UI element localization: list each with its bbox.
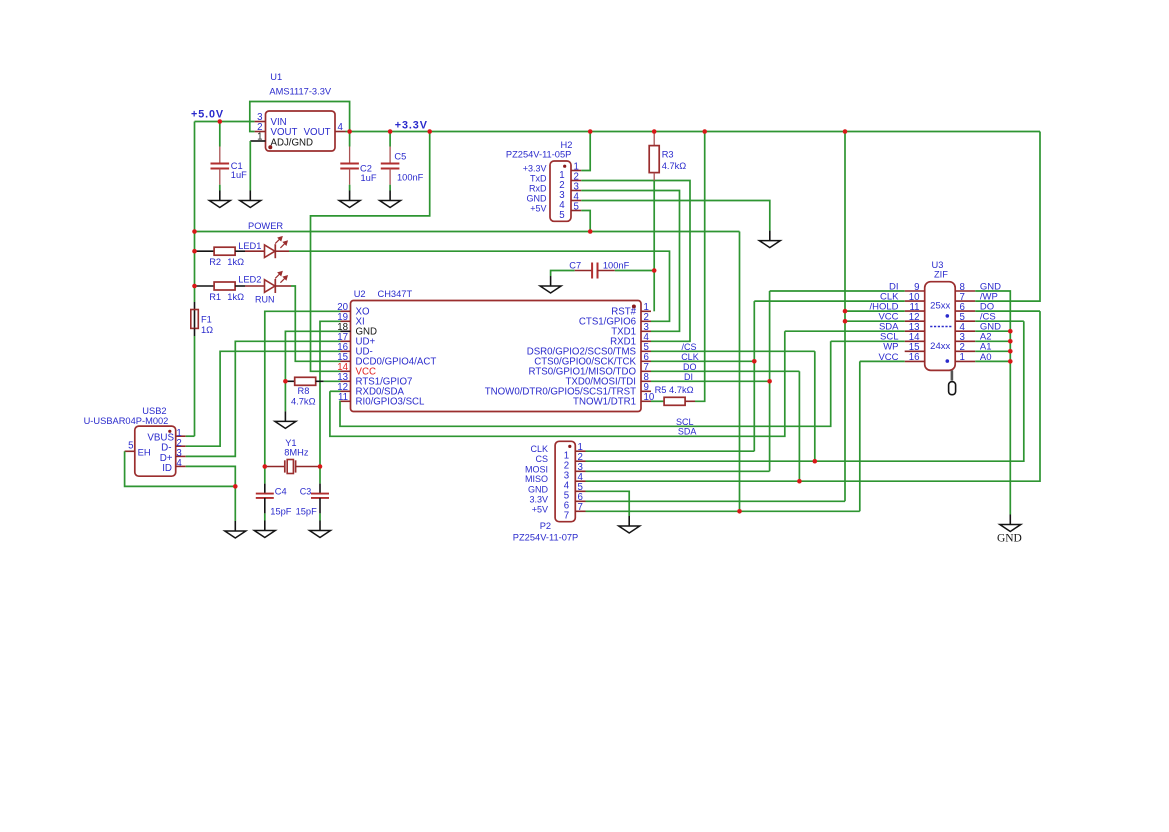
- H2 pin 5 +5V stub: [571, 210, 581, 212]
- wire R8 node to ground: [284, 381, 286, 411]
- U3 pin 12 VCC stub: [905, 320, 925, 322]
- wire +5V VCC16 column: [859, 361, 861, 511]
- IC U3 ZIF socket: [925, 260, 956, 370]
- P2 pin 4 MISO stub: [575, 480, 585, 482]
- svg-text:+5.0V: +5.0V: [191, 109, 224, 121]
- svg-text:SDA: SDA: [678, 426, 697, 436]
- wire C1 bottom lead: [219, 185, 221, 191]
- wire C3 to ground: [319, 513, 321, 520]
- wire +3.3V rail: [346, 131, 1041, 133]
- svg-text:TxD: TxD: [530, 174, 547, 184]
- U3 pin 4 GND stub: [955, 330, 975, 332]
- svg-text:Y1: Y1: [285, 438, 296, 448]
- svg-text:CH347T: CH347T: [378, 289, 413, 299]
- wire U2 pin8 MOSI to DI net: [651, 380, 770, 382]
- wire U2 XO to Y1: [265, 311, 341, 466]
- R1 pin right (black): [235, 285, 245, 287]
- U2 pin 19 XI stub: [341, 320, 351, 322]
- U3 pin 16 VCC stub: [905, 360, 925, 362]
- junction LED2/+5V: [192, 284, 197, 289]
- wire +5V left vertical: [194, 122, 196, 303]
- junction rail/R5: [702, 129, 707, 134]
- svg-text:CS: CS: [535, 454, 548, 464]
- P2 pin 7 +5V stub: [575, 510, 585, 512]
- ground C4: [254, 521, 275, 538]
- wire USB D- to U2 UD-: [186, 351, 341, 446]
- resistor R5 4.7k: [655, 385, 694, 405]
- U1 pin 3 VIN stub: [255, 121, 266, 123]
- wire POWER +5V column: [739, 232, 741, 512]
- svg-text:DI: DI: [684, 372, 693, 382]
- wire U2 pin5 TMS to /CS column: [651, 350, 815, 352]
- U2 pin 7 RTS0/GPIO1/MISO/TDO stub: [641, 370, 651, 372]
- U1 pin 2 VOUT stub: [255, 131, 266, 133]
- svg-text:5: 5: [574, 201, 579, 212]
- wire /CS column: [814, 351, 816, 461]
- wire U3 CLK wire: [754, 300, 904, 302]
- wire +3.3V column to P2: [844, 132, 846, 502]
- ground C3: [310, 521, 331, 538]
- svg-text:C7: C7: [569, 260, 581, 270]
- capacitor C3 15pF: [296, 487, 329, 517]
- ground C7: [540, 276, 561, 293]
- H2 pin 4 GND stub: [571, 200, 581, 202]
- USB2 pin 1 stub: [176, 435, 186, 437]
- wire C5 top lead: [389, 132, 391, 147]
- F1 pin top (black): [194, 302, 196, 310]
- wire U2 pin10 to R5: [651, 400, 664, 402]
- wire C7 left to ground: [551, 271, 575, 277]
- wire H2 pin5 to POWER rail: [581, 211, 590, 232]
- junction rail/H2: [588, 129, 593, 134]
- svg-text:7: 7: [564, 511, 569, 522]
- wire U1 VOUT loop to pin2: [250, 102, 350, 132]
- svg-text:RUN: RUN: [255, 295, 275, 305]
- wire H2 pin3 RxD to U2 TXD1: [581, 191, 679, 332]
- U2 pin 11 RI0/GPIO3/SCL stub: [341, 400, 351, 402]
- U3 pin 2 A1 stub: [955, 350, 975, 352]
- LED LED2: [265, 271, 288, 293]
- wire P2 +5V wire: [586, 510, 860, 512]
- wire USB D+ to U2 UD+: [186, 341, 341, 456]
- svg-text:16: 16: [909, 352, 920, 363]
- wire U3 SDA wire: [785, 330, 905, 332]
- U3 pin 1 A0 stub: [955, 360, 975, 362]
- svg-text:H2: H2: [561, 140, 573, 150]
- U3 pin 6 DO stub: [955, 310, 975, 312]
- C1 pin bottom: [219, 169, 221, 185]
- svg-text:4: 4: [338, 122, 344, 133]
- svg-text:EH: EH: [138, 446, 151, 457]
- resistor R8 4.7k: [291, 377, 316, 406]
- wire RST node down to U2 pin1: [653, 271, 655, 312]
- wire U2 pin6 SCK to CLK net: [651, 360, 754, 362]
- wire H2 pin2 TxD to U2 RXD1: [581, 181, 690, 342]
- C4 pin top (black): [264, 467, 266, 484]
- wire U2 pin7 MISO to DO column: [651, 370, 799, 372]
- svg-text:LED1: LED1: [238, 241, 261, 251]
- P2 pin 2 CS stub: [575, 460, 585, 462]
- wire P2 MISO wire: [586, 311, 1041, 481]
- connector H2 PZ254V-11-05P: [506, 140, 572, 221]
- wire R8 to U2 pin13: [324, 380, 341, 382]
- U1 pin 4 VOUT stub: [335, 131, 346, 133]
- svg-text:3.3V: 3.3V: [529, 494, 548, 504]
- svg-text:RI0/GPIO3/SCL: RI0/GPIO3/SCL: [356, 397, 426, 408]
- svg-text:7: 7: [578, 502, 583, 513]
- svg-text:4.7kΩ: 4.7kΩ: [662, 161, 687, 171]
- svg-text:100nF: 100nF: [397, 173, 424, 183]
- U3 pin 13 SDA stub: [905, 330, 925, 332]
- svg-text:4.7kΩ: 4.7kΩ: [291, 397, 316, 407]
- C3 pin top (black): [319, 467, 321, 484]
- H2 pin 3 RxD stub: [571, 190, 581, 192]
- F1 pin bottom (black): [194, 328, 196, 336]
- svg-text:PZ254V-11-05P: PZ254V-11-05P: [506, 150, 571, 160]
- svg-text:+3.3V: +3.3V: [395, 120, 428, 132]
- U2 pin 4 RXD1 stub: [641, 340, 651, 342]
- svg-text:RxD: RxD: [529, 184, 547, 194]
- svg-text:R8: R8: [298, 386, 310, 396]
- ground C1: [209, 191, 230, 208]
- junction Y1/XO: [263, 464, 268, 469]
- ground H2 pin4: [759, 231, 780, 248]
- wire U3 DI wire: [770, 290, 905, 292]
- svg-text:+3.3V: +3.3V: [523, 164, 547, 174]
- U3 25xx orientation dot: [946, 314, 950, 318]
- U3 pin 14 SCL stub: [905, 340, 925, 342]
- junction R8/GND: [283, 379, 288, 384]
- U3 ZIF lever: [949, 370, 956, 394]
- svg-text:LED2: LED2: [238, 275, 261, 285]
- svg-text:1uF: 1uF: [231, 170, 247, 180]
- svg-text:1: 1: [257, 132, 262, 143]
- junction U3 A2: [1008, 339, 1013, 344]
- svg-text:C2: C2: [360, 164, 372, 174]
- svg-text:ZIF: ZIF: [934, 270, 948, 280]
- P2 pin 5 GND stub: [575, 490, 585, 492]
- IC U2 CH347T: [351, 289, 642, 412]
- ground USB ID/EH: [225, 521, 246, 538]
- USB2 pin 3 stub: [176, 455, 186, 457]
- fuse F1 1 ohm: [191, 310, 213, 336]
- junction C1/+5V: [218, 119, 223, 124]
- R1 pin left (black): [197, 285, 215, 287]
- wire U3 DO wire: [975, 310, 1040, 312]
- LED2 cathode lead: [275, 285, 291, 287]
- C3 pin bottom (black): [319, 498, 321, 514]
- svg-text:5: 5: [128, 440, 133, 451]
- C5 pin bottom: [389, 169, 391, 185]
- wire C2 top lead: [349, 132, 351, 147]
- junction /CS/P2: [813, 459, 818, 464]
- wire U3 SCL wire: [831, 340, 905, 342]
- U3 pin 9 DI stub: [905, 290, 925, 292]
- svg-text:1kΩ: 1kΩ: [227, 292, 244, 302]
- U2 pin 12 RXD0/SDA stub: [341, 390, 351, 392]
- wire U3 GND bus: [975, 291, 1010, 515]
- svg-text:5: 5: [559, 210, 564, 221]
- U3 pin 3 A2 stub: [955, 340, 975, 342]
- svg-text:C4: C4: [275, 487, 287, 497]
- LED LED1: [265, 237, 288, 259]
- junction USB ID/EH: [233, 484, 238, 489]
- svg-text:+5V: +5V: [532, 504, 548, 514]
- USB2 pin 4 stub: [176, 465, 186, 467]
- U2 pin 8 TXD0/MOSI/TDI stub: [641, 380, 651, 382]
- svg-text:1Ω: 1Ω: [201, 325, 213, 335]
- svg-text:MISO: MISO: [525, 474, 548, 484]
- U3 pin 10 CLK stub: [905, 300, 925, 302]
- svg-text:/CS: /CS: [682, 342, 697, 352]
- C7 pin left: [575, 270, 592, 272]
- wire U2 XI to Y1: [320, 321, 341, 466]
- wire P2 CLK wire: [586, 450, 755, 452]
- ground C2: [339, 191, 360, 208]
- svg-text:ADJ/GND: ADJ/GND: [271, 137, 314, 148]
- svg-text:USB2: USB2: [142, 406, 166, 416]
- svg-text:CLK: CLK: [530, 444, 548, 454]
- resistor R1 1kΩ: [214, 282, 235, 290]
- svg-text:U-USBAR04P-M002: U-USBAR04P-M002: [84, 416, 169, 426]
- svg-text:8MHz: 8MHz: [284, 448, 309, 458]
- svg-text:R5 4.7kΩ: R5 4.7kΩ: [655, 385, 694, 395]
- capacitor C7 100nF: [569, 260, 629, 278]
- svg-text:F1: F1: [201, 315, 212, 325]
- junction RST/C7: [652, 268, 657, 273]
- U2 pin 6 CTS0/GPIO0/SCK/TCK stub: [641, 360, 651, 362]
- junction rail/C2: [347, 129, 352, 134]
- junction rail/U3: [843, 129, 848, 134]
- svg-text:100nF: 100nF: [603, 260, 630, 270]
- U2 pin 18 GND stub: [341, 330, 351, 332]
- wire USB VBUS to F1: [186, 435, 195, 437]
- junction +3.3V//HOLD: [843, 309, 848, 314]
- wire C1 top lead: [219, 122, 221, 147]
- wire +3.3V branch to U2 VCC: [311, 132, 430, 372]
- ground U3 GND bus: [1000, 515, 1021, 532]
- wire R3 to RST node: [653, 181, 655, 271]
- svg-text:R3: R3: [662, 150, 674, 160]
- H2 pin 2 TxD stub: [571, 180, 581, 182]
- junction U3 A0: [1008, 359, 1013, 364]
- svg-text:1: 1: [960, 352, 965, 363]
- C2 pin top: [349, 147, 351, 164]
- wire SDA run: [330, 331, 785, 436]
- U1 pin 1 ADJ/GND stub (black): [250, 140, 265, 142]
- R8 pin left (black): [285, 380, 294, 382]
- svg-text:AMS1117-3.3V: AMS1117-3.3V: [269, 87, 331, 97]
- wire P2 MOSI wire: [586, 470, 770, 472]
- U2 pin 3 TXD1 stub: [641, 330, 651, 332]
- U2 pin 2 CTS1/GPIO6 stub: [641, 320, 651, 322]
- R2 pin right (black): [235, 250, 245, 252]
- svg-text:1uF: 1uF: [361, 173, 377, 183]
- wire C7 to RST node: [615, 270, 654, 272]
- USB2 pin 2 stub: [176, 445, 186, 447]
- capacitor C4 15pF: [256, 487, 292, 517]
- capacitor C5 100nF: [381, 164, 400, 169]
- svg-text:U2: U2: [354, 289, 366, 299]
- svg-text:CLK: CLK: [681, 352, 699, 362]
- U2 pin 13 RTS1/GPIO7 stub: [341, 380, 351, 382]
- svg-text:GND: GND: [527, 194, 548, 204]
- wire P2 GND wire: [586, 491, 630, 516]
- R2 pin left (black): [197, 250, 215, 252]
- wire U3 A0 wire: [975, 360, 1010, 362]
- wire +5V rail: [195, 121, 255, 123]
- wire DI column: [769, 291, 771, 471]
- C1 pin top: [219, 147, 221, 164]
- LED1 anode lead: [245, 250, 265, 252]
- junction POWER/H2pin5: [588, 229, 593, 234]
- C4 pin bottom (black): [264, 498, 266, 514]
- P2 pin 3 MOSI stub: [575, 470, 585, 472]
- wire F1 to USB VBUS: [194, 336, 196, 436]
- svg-text:DO: DO: [683, 362, 697, 372]
- wire +5V to R1: [195, 285, 197, 287]
- R5 pin right: [685, 400, 695, 402]
- USB2 pin 5 EH stub: [125, 450, 135, 452]
- U3 pin 5 /CS stub: [955, 320, 975, 322]
- ground U1 ADJ: [240, 191, 261, 208]
- svg-text:PZ254V-11-07P: PZ254V-11-07P: [513, 532, 578, 542]
- wire C4 to ground: [264, 513, 266, 520]
- resistor R2 1kΩ: [214, 247, 235, 255]
- svg-text:POWER: POWER: [248, 221, 283, 231]
- U2 pin 1 RST# stub: [641, 310, 651, 312]
- U2 pin 15 DCD0/GPIO4/ACT stub: [341, 360, 351, 362]
- wire H2 pin4 GND down: [581, 201, 770, 231]
- resistor R3 4.7k pull-up: [649, 132, 686, 181]
- svg-text:P2: P2: [540, 521, 551, 531]
- wire C5 bottom lead: [389, 185, 391, 191]
- junction +5V/P2: [737, 509, 742, 514]
- junction rail/C5: [388, 129, 393, 134]
- wire C2 bottom lead: [349, 185, 351, 191]
- crystal Y1 8MHz: [265, 438, 320, 474]
- junction DO/P2 MISO: [797, 479, 802, 484]
- wire LED2 to U2 DCD0/GPIO4/ACT: [291, 286, 341, 361]
- svg-text:MOSI: MOSI: [525, 464, 548, 474]
- wire P2 3.3V wire: [586, 500, 846, 502]
- svg-text:4: 4: [176, 458, 182, 469]
- junction rail/R3: [652, 129, 657, 134]
- wire U3 A2 wire: [975, 340, 1010, 342]
- wire U3 /HOLD wire: [845, 310, 905, 312]
- svg-text:TNOW1/DTR1: TNOW1/DTR1: [573, 397, 636, 408]
- LED1 cathode lead: [275, 250, 289, 252]
- wire DO column: [798, 371, 800, 481]
- connector P2 PZ254V-11-07P: [513, 441, 578, 542]
- wire R5 to +3.3V: [695, 132, 705, 402]
- voltage regulator U1 AMS1117-3.3V: [266, 72, 336, 151]
- U2 pin 16 UD- stub: [341, 350, 351, 352]
- svg-text:ID: ID: [162, 463, 172, 474]
- junction +3.3V/VCC12: [843, 319, 848, 324]
- svg-text:15pF: 15pF: [296, 507, 318, 517]
- junction U3 A1: [1008, 349, 1013, 354]
- junction U3 GND4: [1008, 329, 1013, 334]
- ground R8: [275, 411, 296, 428]
- svg-text:GND: GND: [528, 484, 549, 494]
- U2 pin 14 VCC stub: [341, 370, 351, 372]
- svg-text:U1: U1: [270, 72, 282, 82]
- LED2 anode lead: [245, 285, 265, 287]
- svg-text:1kΩ: 1kΩ: [227, 257, 244, 267]
- C5 pin top: [389, 147, 391, 164]
- capacitor C2 1uF: [340, 164, 359, 169]
- U2 pin 17 UD+ stub: [341, 340, 351, 342]
- wire CLK column: [753, 301, 755, 451]
- U2 pin 9 TNOW0/DTR0/GPIO5/SCS1/TRST stub: [641, 390, 651, 392]
- wire U1 ADJ to ground: [249, 141, 251, 191]
- wire USB ID down: [186, 466, 236, 521]
- svg-text:U3: U3: [932, 260, 944, 270]
- connector USB2 U-USBAR04P-M002: [84, 406, 176, 476]
- svg-text:R2: R2: [209, 257, 221, 267]
- wire U2 pin12 SDA loop: [330, 390, 341, 392]
- svg-text:+5V: +5V: [530, 204, 546, 214]
- wire U2 pin18 GND down: [285, 331, 340, 381]
- U2 pin 5 DSR0/GPIO2/SCS0/TMS stub: [641, 350, 651, 352]
- wire LED1 to U2 CTS1/GPIO6: [289, 251, 670, 321]
- R8 pin right (black): [316, 380, 324, 382]
- svg-text:24xx: 24xx: [930, 341, 950, 352]
- junction DI/U2pin8: [767, 379, 772, 384]
- wire H2 pin1 to +3.3V rail: [581, 132, 590, 171]
- wire U2 pin11 SCL loop: [340, 341, 831, 426]
- svg-text:15pF: 15pF: [270, 507, 292, 517]
- C2 pin bottom: [349, 169, 351, 185]
- U2 pin 10 TNOW1/DTR1 stub: [641, 400, 651, 402]
- ground P2 GND: [619, 516, 640, 533]
- junction Y1/XI: [318, 464, 323, 469]
- wire POWER rail: [195, 231, 740, 233]
- U3 pin 11 /HOLD stub: [905, 310, 925, 312]
- U3 pin 15 WP stub: [905, 350, 925, 352]
- junction LED1/+5V: [192, 249, 197, 254]
- wire U3 A1 wire: [975, 350, 1010, 352]
- svg-text:GND: GND: [997, 533, 1022, 545]
- wire U3 GND4 wire: [975, 330, 1010, 332]
- P2 pin 1 CLK stub: [575, 450, 585, 452]
- wire U3 VCC16 wire: [860, 360, 905, 362]
- svg-text:C3: C3: [300, 487, 312, 497]
- svg-text:C5: C5: [394, 152, 406, 162]
- wire P2 CS wire: [586, 321, 1024, 461]
- U3 divider dashes: [930, 326, 952, 328]
- U3 pin 7 /WP stub: [955, 300, 975, 302]
- junction CLK/U2pin6: [752, 359, 757, 364]
- wire +5V to R2: [195, 250, 197, 252]
- P2 pin 6 3.3V stub: [575, 500, 585, 502]
- H2 pin 1 +3.3V stub: [571, 170, 581, 172]
- capacitor C1 1uF: [211, 164, 230, 169]
- U2 pin 20 XO stub: [341, 310, 351, 312]
- U3 pin 8 GND stub: [955, 290, 975, 292]
- U3 24xx orientation dot: [946, 359, 950, 363]
- C7 pin right: [598, 270, 615, 272]
- svg-text:25xx: 25xx: [930, 300, 950, 311]
- wire U3 VCC12 wire: [845, 320, 905, 322]
- wire U3 /CS wire: [975, 320, 1024, 322]
- junction rail/U2VCC: [427, 129, 432, 134]
- wire USB EH loop: [125, 451, 236, 486]
- ground C5: [380, 191, 401, 208]
- svg-text:R1: R1: [209, 292, 221, 302]
- wire U3 /WP to +3.3V rail: [975, 132, 1040, 302]
